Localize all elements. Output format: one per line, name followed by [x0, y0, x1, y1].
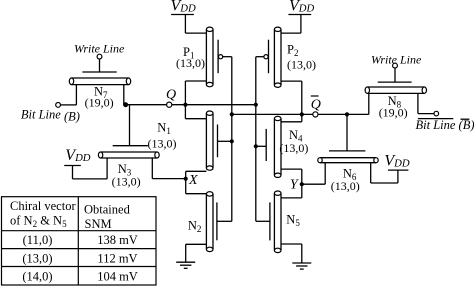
svg-text:Write Line: Write Line	[371, 53, 422, 67]
svg-text:Bit Line (B): Bit Line (B)	[416, 118, 474, 132]
svg-text:(13,0): (13,0)	[112, 175, 141, 189]
svg-text:Obtained: Obtained	[84, 202, 131, 216]
svg-text:(19,0): (19,0)	[85, 96, 114, 110]
svg-text:VDD: VDD	[171, 0, 196, 14]
svg-text:Bit Line (B): Bit Line (B)	[21, 107, 80, 123]
svg-text:Q: Q	[311, 98, 321, 113]
svg-text:Chiral vector: Chiral vector	[10, 199, 76, 213]
svg-text:104 mV: 104 mV	[97, 270, 138, 284]
svg-text:(14,0): (14,0)	[22, 270, 52, 284]
svg-text:138 mV: 138 mV	[97, 233, 138, 247]
svg-text:(11,0): (11,0)	[23, 233, 53, 247]
svg-text:(13,0): (13,0)	[279, 141, 308, 155]
svg-text:Q: Q	[166, 88, 176, 103]
svg-text:(13,0): (13,0)	[148, 137, 177, 151]
svg-text:(19,0): (19,0)	[379, 106, 408, 120]
svg-text:(13,0): (13,0)	[176, 56, 205, 70]
svg-text:of N2 & N5: of N2 & N5	[10, 214, 67, 230]
svg-text:Write Line: Write Line	[74, 41, 125, 55]
svg-text:112 mV: 112 mV	[97, 251, 137, 265]
svg-text:(13,0): (13,0)	[22, 251, 52, 265]
svg-text:X: X	[188, 173, 198, 188]
svg-text:(13,0): (13,0)	[331, 179, 360, 193]
svg-text:SNM: SNM	[85, 217, 112, 231]
svg-text:(13,0): (13,0)	[287, 58, 316, 72]
svg-text:VDD: VDD	[289, 0, 314, 14]
